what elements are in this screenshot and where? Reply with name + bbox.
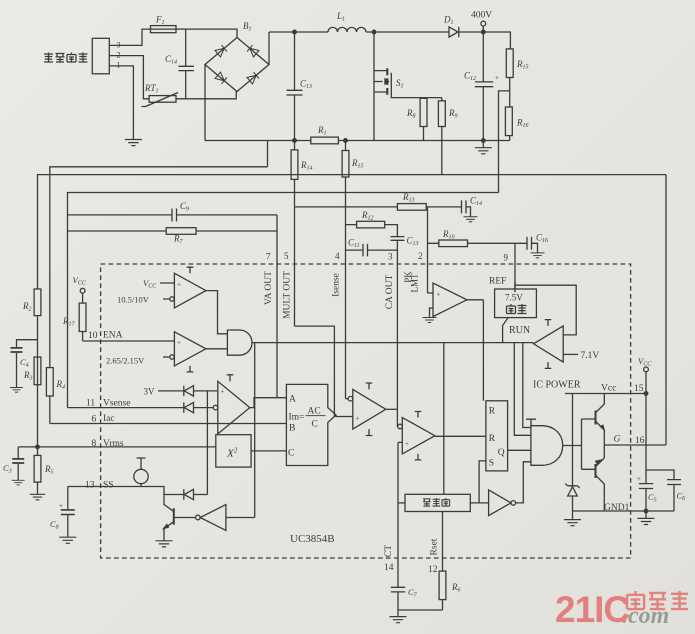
svg-text:C13: C13 [300,79,312,91]
wire Q row [508,449,531,451]
svg-text:11: 11 [86,399,95,409]
resistor R1 (horizontal on rail) [311,137,339,144]
svg-text:LMT: LMT [410,273,420,293]
svg-text:R1: R1 [317,125,327,137]
wire RT1 to bridge AC2 [176,92,236,99]
wire bridge DC+ to top rail [268,32,270,65]
wire PKLMT out to FF [482,300,484,401]
svg-text:C4: C4 [20,357,29,369]
svg-text:3: 3 [388,252,393,262]
svg-text:+: + [221,388,225,396]
svg-text:7: 7 [266,252,271,262]
wire mult out to CA+ [336,415,353,417]
oscillator box [405,494,470,511]
svg-text:CA OUT: CA OUT [385,275,395,310]
capacitor C9 row [68,209,278,222]
transistor S1 (MOSFET) [374,71,387,92]
inductor L1 [328,27,366,32]
capacitor C12 (output) [475,32,493,141]
wire CA OUT column [396,241,398,427]
capacitor C14 [178,29,194,99]
wire stub rail drop [267,141,269,167]
svg-text:.com: .com [622,603,669,629]
wire pin3 to F1 [109,29,150,45]
svg-text:AC: AC [308,407,321,417]
svg-text:D1: D1 [443,15,454,27]
svg-text:+: + [495,74,499,82]
diode B1a [215,45,227,57]
svg-text:F1: F1 [155,15,165,27]
svg-text:CT: CT [384,545,394,557]
wire Rset column [442,512,444,611]
svg-text:Iac: Iac [103,414,115,424]
svg-text:C5: C5 [648,492,657,504]
svg-text:C3: C3 [3,463,12,475]
bottom rail [205,140,510,142]
svg-text:C14: C14 [165,54,177,66]
block multiplier AC/C [286,384,336,465]
svg-text:RT1: RT1 [144,83,159,95]
capacitor C6 branch [646,470,681,511]
wire row2 gate-drive bus [38,175,667,289]
svg-text:+: + [59,502,63,510]
svg-text:S: S [489,459,494,469]
svg-text:C7: C7 [408,587,418,599]
label oscillator [423,498,450,506]
svg-text:B1: B1 [243,21,252,33]
svg-text:RUN: RUN [509,325,530,336]
wire A2 out [563,445,582,447]
wire S input [479,461,486,503]
svg-text:REF: REF [489,277,506,287]
svg-text:VA OUT: VA OUT [264,271,274,305]
op-amp U2 (voltage error amp) [218,381,250,434]
capacitor C3 branch [17,447,19,459]
wire 3V row [158,390,184,392]
current source I1 (SS) [134,469,148,483]
resistor R7 row [68,230,278,232]
wire RUN out drop [523,343,531,428]
wire C7/R6 bottom [398,609,443,611]
wire SS row [101,487,184,495]
ground (AC input) [125,140,142,146]
svg-text:Im=: Im= [289,413,305,423]
node output gnd [482,139,486,143]
svg-text:B: B [289,424,295,434]
svg-text:+: + [177,339,181,347]
svg-text:R17: R17 [62,316,76,328]
svg-text:R5: R5 [44,464,54,476]
wire CT to osc [398,502,405,504]
svg-text:SS: SS [103,481,114,491]
diode D3 (Vsense clamp) [184,402,194,412]
capacitor C14b (pklmt filter) [462,200,471,216]
svg-text:7.5V: 7.5V [505,293,523,303]
svg-text:C6: C6 [677,491,686,503]
wire row1 (to Iac column) [50,167,268,368]
svg-text:Vrms: Vrms [103,439,124,449]
svg-text:G: G [614,435,621,445]
node Vrms divider [36,445,40,449]
resistor R13 row [295,206,462,208]
svg-text:VCC: VCC [143,278,157,290]
zener DZ1 [572,394,574,487]
svg-text:13: 13 [85,481,95,491]
capacitor C13 (bulk) [287,32,303,141]
capacitor C7 [391,587,405,610]
op-amp U4 (PWM comp) [402,418,435,454]
svg-text:IC POWER: IC POWER [533,380,581,391]
fuse F1 [151,26,177,33]
wire REF column pin9 [514,243,516,289]
wire feedback row (Vsense) [68,193,499,408]
svg-text:C11: C11 [348,238,360,250]
op-amp U3 (current amp) [353,389,386,429]
node 400V [482,30,486,34]
capacitor C13b (series) [391,237,405,241]
op-amp U1a (UVLO) [174,273,206,308]
wire ENA row [83,340,175,342]
svg-text:3V: 3V [144,387,156,397]
svg-text:X2: X2 [226,447,238,460]
svg-text:MULT OUT: MULT OUT [283,271,293,319]
wire divider tap to feedback [499,91,510,193]
svg-text:6: 6 [92,415,97,425]
svg-text:+: + [637,475,641,483]
inverter U7 [489,490,511,516]
ground (C7) [390,617,407,623]
ground (R5) [30,494,45,499]
comparator U5 (PK LMT) [433,283,467,317]
svg-text:Rset: Rset [430,538,440,555]
svg-text:L1: L1 [336,11,345,23]
flip-flop FF1 [486,401,508,471]
svg-text:3: 3 [117,41,121,50]
svg-text:R9: R9 [448,108,458,120]
svg-text:R16: R16 [516,118,529,130]
resistor R8 [423,98,425,141]
svg-text:5: 5 [284,251,289,261]
terminal Vcc (ENA pull-up) [80,288,85,293]
terminal Vcc external [644,367,649,372]
diode D1 [449,27,459,37]
svg-text:+: + [356,415,360,423]
svg-text:1: 1 [117,61,121,70]
svg-text:C9: C9 [180,201,189,213]
resistor R3 [34,357,41,385]
resistor R16 (divider bottom) [505,107,512,136]
transistor Q1 (NPN driver) [595,411,597,425]
svg-text:S1: S1 [396,78,404,90]
wire PK LMT column [427,207,429,293]
wire Vsense row [68,407,184,409]
svg-text:9: 9 [504,253,509,263]
inverter U8 (SS) [196,515,201,520]
driver base bus [582,419,596,469]
wire bridge DC- to bottom rail [204,65,206,141]
svg-text:C: C [312,420,318,430]
ground (zener) [564,520,581,526]
resistor R17 [82,293,84,341]
comparator U6 (RUN) [534,326,564,362]
ground (C16) [531,253,545,258]
svg-text:C8: C8 [50,519,59,531]
resistor R4 [46,368,53,396]
wire C14 top to bridge AC1 [186,29,237,37]
watermark dianziwang [627,591,688,609]
wire pin1 to ground [109,66,133,139]
svg-text:10: 10 [88,331,98,341]
svg-text:8: 8 [92,439,97,449]
wire U1a out to AND [206,291,228,334]
svg-text:15: 15 [634,384,644,394]
wire enable row [252,342,533,344]
block X2 (squarer) [216,435,251,467]
transistor Q3 (SS discharge) [164,495,173,512]
wire pin2 to RT1 [109,56,149,99]
svg-text:R13: R13 [402,192,415,204]
svg-text:400V: 400V [471,11,492,21]
diode D4 (SS) [184,489,194,499]
ground (C3) [12,480,25,485]
svg-text:R15: R15 [351,158,364,170]
svg-text:21IC: 21IC [555,589,629,630]
diode B1b [247,45,259,57]
node Vcc/rail [644,392,648,396]
svg-text:A: A [289,395,296,405]
svg-text:C14: C14 [470,196,482,208]
wire G row [604,444,666,446]
svg-text:2: 2 [418,251,423,261]
capacitor C16 [527,237,538,253]
capacitor C11 row [346,244,398,257]
bridge rectifier B1 [205,38,269,92]
svg-text:Vsense: Vsense [103,399,130,409]
thermistor RT1 [149,96,176,103]
node GND1 [644,509,648,513]
wire osc sync drop [443,343,445,495]
svg-text:16: 16 [635,436,645,446]
svg-text:R: R [489,407,496,417]
svg-text:R7: R7 [173,234,184,246]
wire REF to RUN comp [515,282,576,335]
svg-text:2.65/2.15V: 2.65/2.15V [106,356,145,366]
svg-text:GND1: GND1 [604,503,630,513]
op-amp U1b (ENA comp) [174,332,206,366]
svg-text:ENA: ENA [103,331,123,341]
svg-text:R4: R4 [56,379,66,391]
ground (Q3) [156,541,173,547]
IC boundary (dashed) [101,264,631,558]
svg-text:C12: C12 [464,71,476,83]
ground (output) [475,148,492,154]
svg-text:UC3854B: UC3854B [290,533,335,545]
svg-text:2: 2 [117,51,121,60]
wire S1 drain/source column [373,32,375,141]
svg-text:R14: R14 [300,160,313,172]
svg-text:R6: R6 [451,582,461,594]
wire 7.5V out diagonal [503,318,509,343]
resistor R14 (to MULT OUT) [294,141,296,327]
svg-text:Q: Q [498,448,505,458]
IC POWER rail [565,393,646,395]
node rail/R14 [293,139,297,143]
wire MULT OUT to multiplier output [295,326,335,416]
wire GND1 row [573,510,675,512]
transistor Q2 (PNP driver) [595,464,597,478]
svg-text:10.5/10V: 10.5/10V [117,295,150,305]
svg-text:14: 14 [384,563,394,573]
resistor R12 row [346,225,398,237]
wire CT column [397,442,399,587]
wire Vrms row [18,446,216,448]
ground (PK LMT) [423,318,437,323]
svg-text:R8: R8 [406,108,416,120]
wire to SS inverter [254,343,256,518]
resistor R2 [34,289,41,316]
svg-text:C: C [288,449,294,459]
capacitor C4 branch [17,340,38,348]
and gate A1 [227,330,252,355]
svg-text:VCC: VCC [73,275,87,287]
svg-text:R3: R3 [23,370,33,382]
and gate A2 [531,426,563,466]
node S1 drain [372,30,376,34]
diode D2 (3V clamp) [184,386,194,396]
svg-text:7.1V: 7.1V [581,351,600,361]
svg-text:+: + [405,440,409,448]
svg-text:4: 4 [335,251,340,261]
resistor R6 [439,571,446,600]
wire VA OUT column [276,215,278,398]
svg-text:R15: R15 [516,59,529,71]
capacitor C5 [639,484,653,511]
resistor R15b (to Isense) [345,141,347,399]
svg-text:+: + [437,291,441,299]
svg-text:Vcc: Vcc [601,384,616,394]
wire ref enable drop [514,343,531,436]
svg-text:R12: R12 [361,210,374,222]
ground (C4) [10,388,23,393]
top rail [269,32,510,49]
node C13 junction top [293,30,297,34]
svg-text:C13: C13 [407,236,419,248]
svg-text:Isense: Isense [332,273,342,297]
svg-text:C16: C16 [536,233,548,245]
wire osc out [470,502,488,504]
label AC input [44,53,88,63]
svg-text:R2: R2 [22,301,32,313]
svg-text:R: R [489,434,496,444]
ground (C14b) [464,217,478,222]
svg-text:12: 12 [428,565,438,575]
svg-text:+: + [177,281,181,289]
diode B1c [215,72,227,84]
svg-text:R10: R10 [442,229,455,241]
connector J1 (AC input) [92,38,109,74]
resistor R9 [441,98,443,175]
wire Iac row [50,423,287,425]
resistor R5 [34,455,41,482]
wire F1 to C14 node [176,28,186,30]
node rail/R15b [344,139,348,143]
block 7.5V ref [514,289,516,292]
capacitor C8 (SS) [67,487,69,510]
resistor R15 (divider top) [506,49,513,78]
svg-text:VCC: VCC [638,356,652,368]
ground (GND1) [638,518,655,524]
resistor R10 row [428,242,528,244]
diode B1d [247,72,259,84]
wire clamp column [206,391,208,495]
ground (C8) [59,537,76,543]
